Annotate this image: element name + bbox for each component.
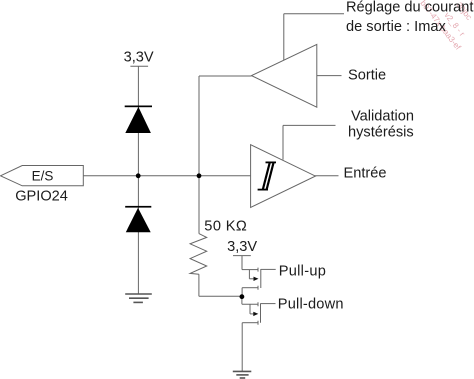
svg-text:Réglage du courant: Réglage du courant — [346, 0, 473, 16]
svg-text:GPIO24: GPIO24 — [15, 189, 68, 205]
svg-text:E/S: E/S — [32, 169, 54, 184]
svg-text:50 KΩ: 50 KΩ — [204, 218, 247, 234]
svg-text:hystérésis: hystérésis — [348, 124, 414, 140]
svg-text:Pull-up: Pull-up — [279, 264, 327, 280]
svg-text:Sortie: Sortie — [348, 68, 386, 84]
svg-text:Pull-down: Pull-down — [278, 296, 344, 312]
svg-text:3,3V: 3,3V — [227, 239, 257, 255]
svg-text:Entrée: Entrée — [344, 166, 387, 182]
svg-text:Validation: Validation — [351, 108, 414, 124]
svg-text:de sortie : Imax: de sortie : Imax — [346, 19, 446, 35]
svg-text:3,3V: 3,3V — [124, 50, 154, 66]
